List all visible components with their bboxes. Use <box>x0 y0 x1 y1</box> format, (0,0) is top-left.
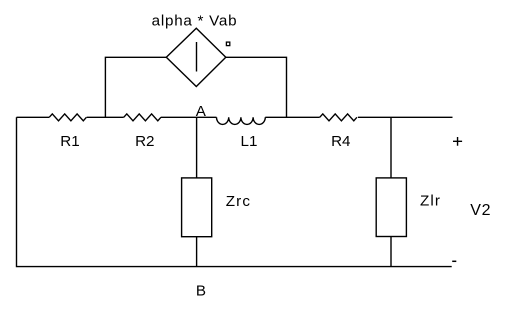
dependent source inner line <box>196 42 198 72</box>
wire diamond left lead <box>105 57 166 117</box>
impedance Zrc box <box>182 178 212 237</box>
inductor L1 <box>216 117 265 124</box>
wire main horizontal left segment <box>17 116 50 118</box>
resistor R1 <box>49 114 86 121</box>
wire left rail and bottom rail <box>17 117 452 266</box>
svg-text:R4: R4 <box>331 133 350 150</box>
svg-text:A: A <box>196 103 207 120</box>
wire between L1 and R4 <box>265 116 319 118</box>
svg-text:Zrc: Zrc <box>226 193 251 210</box>
polarity marker square <box>226 42 229 46</box>
wire between R2 and node A / L1 <box>161 116 217 118</box>
svg-text:R2: R2 <box>135 133 154 150</box>
wire from R4 to right terminal <box>358 116 453 118</box>
svg-text:R1: R1 <box>60 133 79 150</box>
wire node A to Zrc <box>196 117 198 178</box>
resistor R4 <box>320 114 357 121</box>
impedance Zlr box <box>376 178 406 237</box>
svg-text:Zlr: Zlr <box>420 193 441 210</box>
dependent source diamond alpha*Vab <box>166 28 226 86</box>
wire Zrc to bottom rail <box>196 237 198 267</box>
svg-text:B: B <box>196 282 206 299</box>
svg-text:alpha * Vab: alpha * Vab <box>152 13 238 30</box>
plus terminal label <box>453 137 462 146</box>
minus terminal label <box>452 260 456 262</box>
wire Zlr to bottom rail <box>390 237 392 267</box>
resistor R2 <box>124 114 161 121</box>
wire diamond right lead <box>226 57 287 117</box>
svg-text:L1: L1 <box>241 133 258 150</box>
svg-text:V2: V2 <box>470 202 491 219</box>
wire between R1 and R2 <box>87 116 124 118</box>
wire top rail to Zlr <box>390 117 392 178</box>
